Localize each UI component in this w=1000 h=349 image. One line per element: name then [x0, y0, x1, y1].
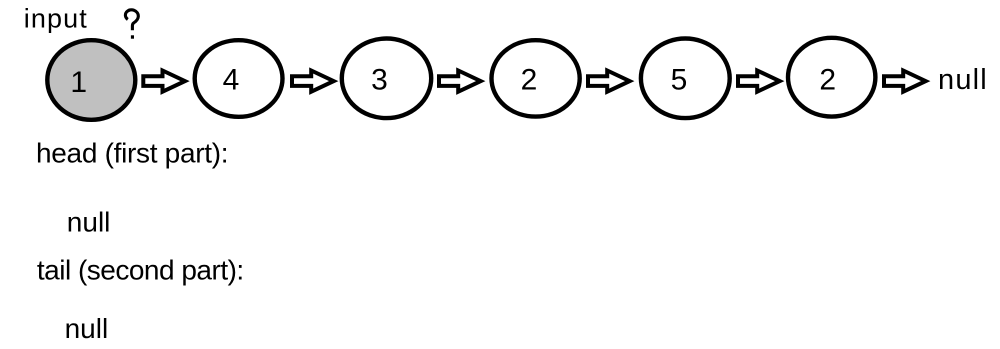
svg-text:null: null: [65, 313, 109, 344]
svg-text:input: input: [24, 4, 88, 34]
svg-text:2: 2: [819, 63, 836, 96]
svg-text:3: 3: [371, 63, 388, 96]
svg-text:5: 5: [671, 63, 688, 96]
svg-text:null: null: [938, 64, 988, 96]
svg-text:tail (second part):: tail (second part):: [37, 255, 244, 286]
svg-text:head (first part):: head (first part):: [36, 138, 228, 169]
svg-text:null: null: [67, 207, 111, 238]
svg-text:1: 1: [70, 66, 87, 99]
svg-text:2: 2: [521, 63, 538, 96]
svg-text:4: 4: [223, 63, 240, 96]
